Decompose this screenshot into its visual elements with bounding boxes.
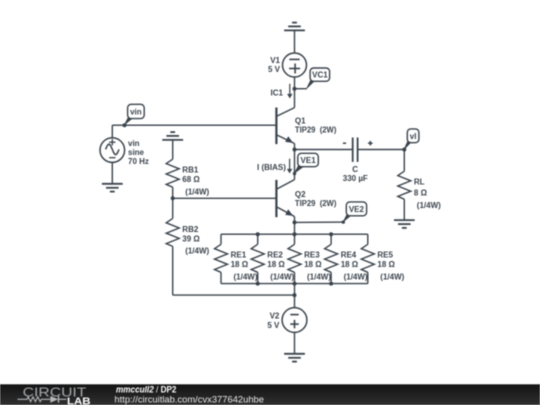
resistor RE1 18 ohm	[215, 234, 228, 283]
svg-text:330 µF: 330 µF	[343, 174, 368, 183]
svg-text:18 Ω: 18 Ω	[377, 260, 395, 269]
svg-text:(1/4W): (1/4W)	[307, 273, 331, 282]
node RE bottom rail junction	[329, 282, 333, 286]
svg-text:TIP29 (2W): TIP29 (2W)	[295, 126, 337, 135]
node Q2 emitter / VE2	[293, 220, 297, 224]
label vin sine 70 Hz	[128, 139, 149, 166]
label Q1 TIP29 (2W)	[295, 117, 337, 135]
label Q2 TIP29 (2W)	[295, 190, 337, 208]
node vl / RL junction	[402, 148, 406, 152]
svg-text:http://circuitlab.com/cvx37764: http://circuitlab.com/cvx377642uhbe	[114, 394, 264, 404]
wire node to VC1 wedge	[295, 88, 307, 90]
svg-text:vin: vin	[128, 139, 140, 148]
svg-text:Q1: Q1	[295, 117, 306, 126]
wire RE top rail	[221, 233, 368, 235]
wire node down to Q2 collector	[294, 150, 296, 180]
node vin anchor	[123, 123, 127, 127]
label RB2 39 ohm (1/4W)	[182, 225, 209, 256]
svg-text:18 Ω: 18 Ω	[341, 260, 359, 269]
svg-text:sine: sine	[128, 148, 145, 157]
label RL 8 ohm (1/4W)	[414, 178, 441, 210]
svg-text:RE1: RE1	[231, 251, 247, 260]
svg-text:LAB: LAB	[67, 395, 91, 405]
wire vin to Q1 base	[112, 124, 276, 126]
svg-text:RL: RL	[414, 178, 425, 187]
wire node to VE2 anchor	[295, 221, 344, 223]
label RE2 18 ohm (1/4W)	[267, 251, 294, 282]
svg-text:V2: V2	[270, 312, 280, 321]
capacitor C 330 uF	[343, 138, 373, 162]
svg-text:(1/4W): (1/4W)	[380, 273, 404, 282]
wire V2 to ground	[294, 332, 296, 353]
svg-text:8 Ω: 8 Ω	[414, 188, 428, 197]
node RE top rail junction	[293, 232, 297, 236]
svg-text:RE2: RE2	[267, 251, 283, 260]
node RB1/RB2/Q2 base	[171, 196, 175, 200]
label V1 5 V	[268, 56, 281, 74]
node RE bottom rail junction	[293, 282, 297, 286]
svg-text:IC1: IC1	[271, 88, 284, 97]
ground (below V2)	[284, 354, 305, 362]
label C 330 uF	[343, 165, 368, 183]
ground (flipped, above V1)	[284, 23, 305, 54]
svg-text:68 Ω: 68 Ω	[182, 175, 200, 184]
source vin (sine 70 Hz)	[100, 138, 125, 163]
svg-text:V1: V1	[270, 56, 280, 65]
svg-text:VC1: VC1	[312, 71, 328, 80]
voltage source V1	[283, 53, 307, 77]
svg-text:(1/4W): (1/4W)	[185, 247, 209, 256]
wire RE bottom rail	[221, 283, 368, 285]
svg-text:70 Hz: 70 Hz	[128, 157, 149, 166]
transistor Q2 (NPN TIP29)	[276, 180, 294, 218]
node Q1 emitter / VE1	[293, 148, 297, 152]
voltage source V2	[282, 308, 307, 333]
svg-text:(1/4W): (1/4W)	[270, 273, 294, 282]
wire vin source to base rail	[111, 125, 113, 138]
svg-text:18 Ω: 18 Ω	[304, 260, 322, 269]
net flag VE1	[293, 153, 319, 175]
label RE4 18 ohm (1/4W)	[341, 251, 368, 282]
net flag vl	[403, 129, 419, 151]
svg-text:RB2: RB2	[182, 225, 199, 234]
wire Q1 emitter to node	[294, 144, 296, 150]
wire node to RL	[403, 150, 405, 172]
transistor Q1 (NPN TIP29)	[276, 108, 294, 145]
svg-text:VE2: VE2	[349, 205, 365, 214]
resistor RE3 18 ohm	[288, 234, 301, 283]
resistor RE5 18 ohm	[361, 234, 374, 283]
svg-text:5 V: 5 V	[267, 321, 280, 330]
label RE1 18 ohm (1/4W)	[231, 251, 258, 282]
svg-text:VE1: VE1	[301, 156, 317, 165]
net flag vin	[123, 104, 144, 126]
svg-text:39 Ω: 39 Ω	[182, 234, 200, 243]
svg-text:18 Ω: 18 Ω	[231, 260, 249, 269]
resistor RB2 39 ohm	[166, 198, 179, 246]
label RE3 18 ohm (1/4W)	[304, 251, 331, 282]
svg-text:(1/4W): (1/4W)	[417, 201, 441, 210]
resistor RB1 68 ohm	[166, 159, 179, 198]
node RE bottom rail junction	[256, 282, 260, 286]
ground (flipped, above RB1)	[162, 132, 183, 159]
resistor RE2 18 ohm	[251, 234, 264, 283]
resistor RE4 18 ohm	[325, 234, 338, 283]
svg-text:Q2: Q2	[295, 190, 306, 199]
wire node down to RE rail	[294, 222, 296, 234]
label RB1 68 ohm (1/4W)	[182, 166, 209, 197]
wire RB2 to V2 node	[173, 246, 295, 295]
svg-text:I (BIAS): I (BIAS)	[257, 163, 286, 172]
resistor RL 8 ohm	[398, 171, 411, 220]
label RE5 18 ohm (1/4W)	[377, 251, 404, 282]
wire Q1 emitter node to capacitor	[295, 149, 352, 151]
wire vin source to ground	[111, 162, 113, 183]
svg-text:C: C	[352, 165, 358, 174]
svg-text:vin: vin	[130, 108, 142, 117]
net flag VE2	[342, 202, 367, 224]
svg-text:(1/4W): (1/4W)	[185, 188, 209, 197]
current arrow I (BIAS)	[287, 159, 292, 174]
node RB2 wire junction	[293, 293, 297, 297]
ground (below RL)	[394, 220, 415, 228]
ground (below vin source)	[102, 184, 123, 192]
node RE top rail junction	[256, 232, 260, 236]
net flag VC1	[306, 68, 330, 90]
svg-text:18 Ω: 18 Ω	[267, 260, 285, 269]
wire RE rail to V2	[294, 284, 296, 308]
wire RB node to Q2 base	[173, 197, 277, 199]
svg-text:5 V: 5 V	[268, 65, 281, 74]
svg-text:RE5: RE5	[377, 251, 393, 260]
current arrow IC1	[287, 84, 292, 99]
svg-text:(1/4W): (1/4W)	[344, 273, 368, 282]
svg-text:RB1: RB1	[182, 166, 199, 175]
svg-text:RE4: RE4	[341, 251, 357, 260]
svg-text:RE3: RE3	[304, 251, 320, 260]
node VC1 anchor	[293, 87, 297, 91]
node RE top rail junction	[329, 232, 333, 236]
svg-text:mmccull2 / DP2: mmccull2 / DP2	[116, 385, 177, 395]
wire capacitor to vl node	[358, 149, 404, 151]
wire Q2 emitter to node	[294, 217, 296, 223]
svg-text:(1/4W): (1/4W)	[234, 273, 258, 282]
CircuitLab logo wire-resistor-diode glyph	[18, 396, 67, 403]
svg-text:vl: vl	[410, 132, 417, 141]
wire V1 to Q1 collector	[294, 77, 296, 108]
label V2 5 V	[267, 312, 280, 330]
svg-text:TIP29 (2W): TIP29 (2W)	[295, 199, 337, 208]
